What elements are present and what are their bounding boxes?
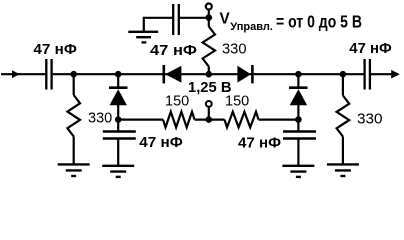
wire: D4 to C5 through node I	[297, 105, 299, 131]
svg-text:47 нФ: 47 нФ	[139, 134, 183, 151]
control voltage label V_Upravl = ot 0 do 5 V	[220, 10, 363, 33]
resistor R2 330 (bias)	[203, 27, 215, 67]
terminal: 1.25 V reference tap	[206, 101, 212, 107]
node I (D4 / attenuator row)	[295, 116, 302, 123]
diode D3 (shunt left, cathode up)	[109, 88, 128, 106]
capacitor C2 47 nF (decoupling)	[173, 4, 179, 35]
diode D1 (series, cathode left)	[164, 65, 182, 83]
wire: C2 to ground corner	[144, 18, 172, 32]
svg-text:47 нФ: 47 нФ	[238, 134, 281, 151]
node H (attenuator row center)	[206, 116, 213, 123]
diode D2 (series, cathode right)	[237, 65, 252, 83]
wire: C3 to ground	[117, 140, 119, 166]
wire: R2 to node C	[208, 67, 210, 75]
svg-text:150: 150	[165, 93, 189, 109]
resistor R3 330 (shunt left)	[67, 95, 80, 137]
wire: terminal to node H	[208, 107, 210, 120]
resistor R5 150	[225, 112, 259, 128]
resistor R4 150	[163, 112, 195, 128]
ground (C3)	[102, 166, 134, 177]
wire: node F to C2	[180, 17, 209, 19]
wire: R5 to node I	[259, 118, 299, 120]
node E (main line / R6)	[340, 71, 347, 78]
ground (top, C2)	[128, 32, 158, 43]
wire: C5 to ground	[297, 140, 299, 166]
ground (R6)	[327, 164, 359, 176]
wire: node D to D4	[297, 74, 299, 88]
terminal: control voltage input	[206, 4, 212, 10]
ground (C5)	[282, 166, 314, 177]
wire: node B to D3	[117, 74, 119, 88]
node B (main line / D3 branch)	[115, 71, 122, 78]
ground (R3)	[58, 164, 90, 176]
svg-text:47 нФ: 47 нФ	[33, 41, 77, 58]
wire: R4 to node H	[195, 118, 225, 120]
wire: output segment	[371, 73, 392, 75]
svg-text:330: 330	[357, 111, 383, 127]
signal-flow arrow (input)	[12, 70, 20, 78]
svg-text:Управл.: Управл.	[230, 21, 273, 33]
svg-text:330: 330	[222, 41, 247, 57]
svg-text:V: V	[220, 10, 231, 27]
capacitor C1 47 nF (series, input)	[46, 59, 51, 90]
wire: main line C1 to C4	[53, 73, 365, 75]
wire: R3 to ground	[73, 137, 75, 165]
resistor R6 330 (shunt right)	[337, 96, 350, 137]
wire: node E down	[342, 74, 344, 95]
wire: R6 to ground	[342, 137, 344, 165]
node C (center, main line / R2)	[206, 71, 213, 78]
capacitor C3 47 nF (shunt left)	[103, 132, 136, 139]
diode D4 (shunt right, cathode up)	[289, 88, 308, 106]
node G (D3 / attenuator row)	[115, 116, 122, 123]
wire: D3 to C3 through node G	[117, 105, 119, 131]
wire: input segment	[1, 73, 46, 75]
node A (main line / R3)	[70, 71, 77, 78]
node D (main line / D4 branch)	[295, 71, 302, 78]
capacitor C5 47 nF (shunt right)	[283, 132, 316, 139]
svg-text:330: 330	[88, 110, 112, 126]
wire: node A down	[73, 74, 75, 95]
node F (terminal / C2 tap)	[206, 14, 213, 21]
capacitor C4 47 nF (series, output)	[365, 59, 370, 90]
wire: node G to R4	[118, 118, 163, 120]
svg-text:150: 150	[225, 93, 249, 109]
svg-text:47 нФ: 47 нФ	[349, 40, 392, 57]
svg-text:47 нФ: 47 нФ	[150, 42, 197, 59]
wire: terminal to R2	[208, 10, 210, 27]
signal-flow arrow (output)	[391, 70, 400, 79]
svg-text:= от 0 до 5 В: = от 0 до 5 В	[276, 12, 362, 32]
